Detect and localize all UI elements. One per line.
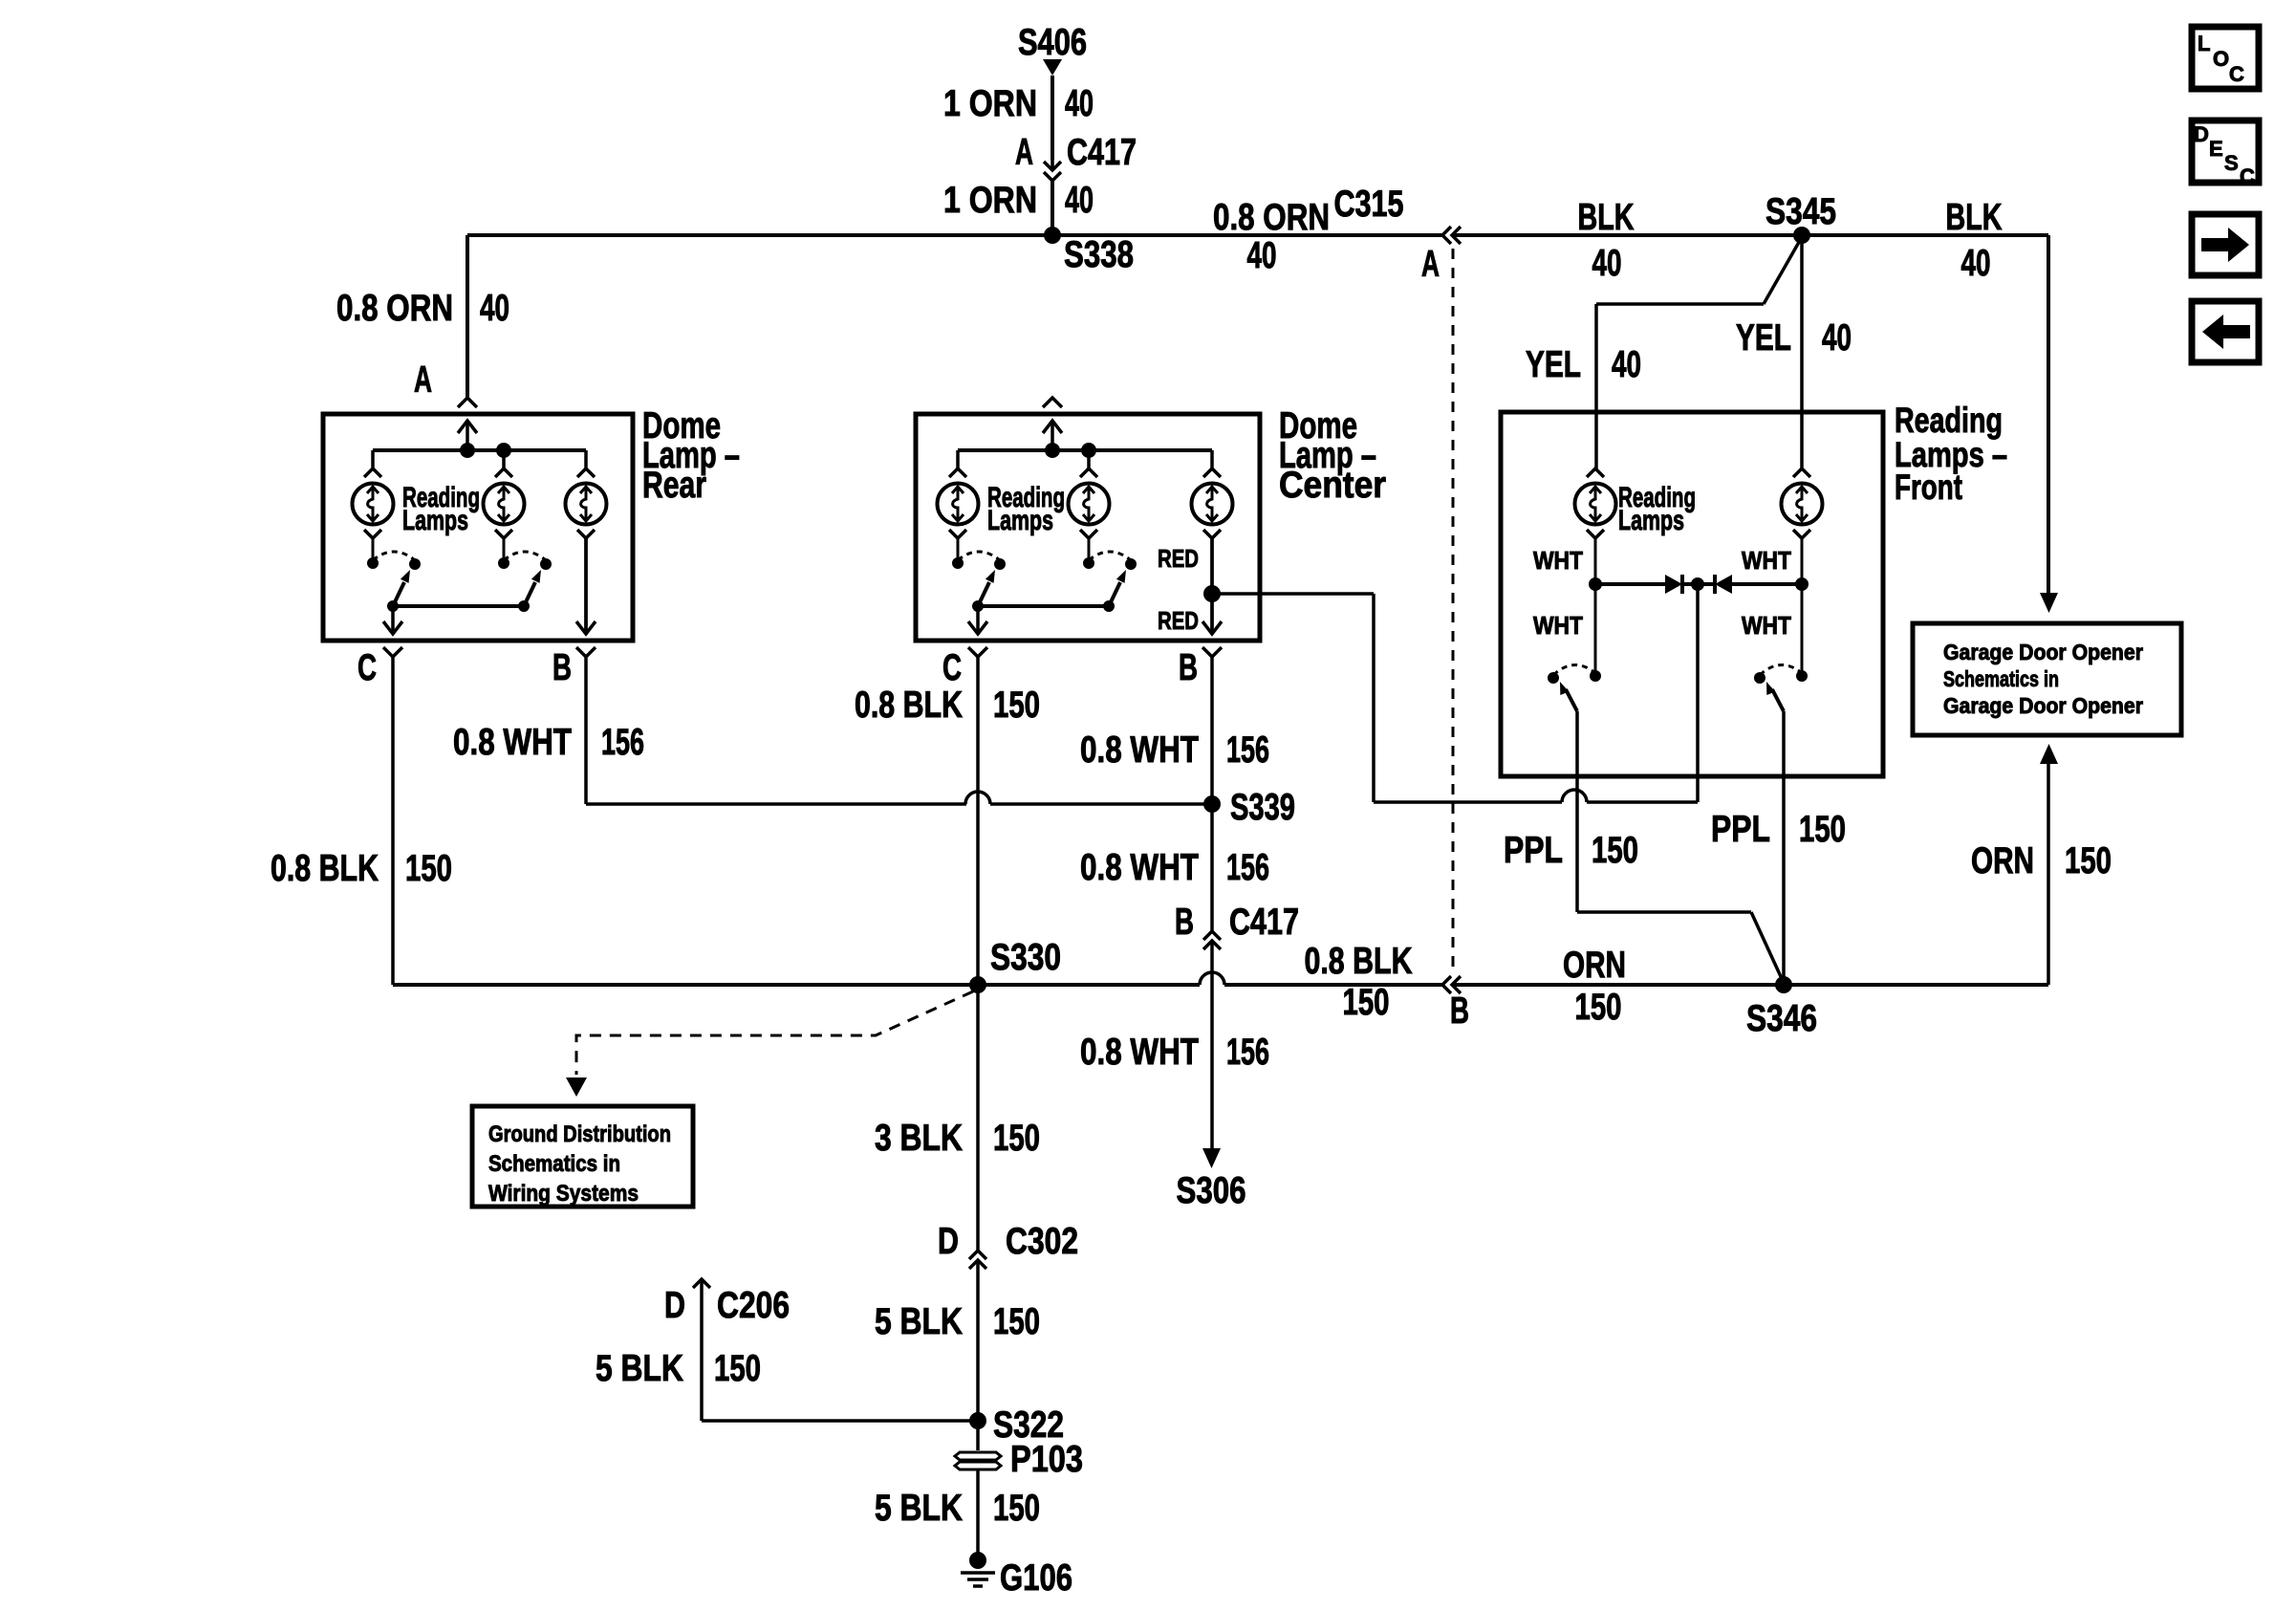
svg-text:150: 150 [1343, 982, 1390, 1023]
svg-text:S330: S330 [990, 937, 1061, 978]
svg-text:A: A [414, 359, 432, 401]
svg-text:BLK: BLK [1946, 197, 2003, 238]
svg-text:E: E [2209, 137, 2223, 161]
svg-text:150: 150 [993, 1301, 1040, 1342]
svg-text:Lamps: Lamps [987, 505, 1053, 536]
svg-text:Garage Door Opener: Garage Door Opener [1943, 693, 2143, 718]
svg-text:3 BLK: 3 BLK [875, 1118, 963, 1159]
svg-text:150: 150 [405, 848, 452, 889]
svg-text:0.8 WHT: 0.8 WHT [453, 722, 572, 763]
svg-text:Lamps: Lamps [402, 505, 468, 536]
svg-text:40: 40 [1065, 180, 1094, 221]
svg-text:0.8 ORN: 0.8 ORN [1213, 197, 1330, 238]
svg-text:A: A [1015, 132, 1033, 173]
svg-text:150: 150 [993, 1488, 1040, 1529]
svg-text:Ground Distribution: Ground Distribution [488, 1121, 671, 1147]
svg-text:C417: C417 [1229, 902, 1299, 943]
svg-text:WHT: WHT [1742, 611, 1791, 640]
svg-text:40: 40 [1822, 317, 1852, 359]
svg-text:150: 150 [1799, 809, 1846, 850]
svg-text:Reading: Reading [1895, 401, 2003, 440]
svg-text:YEL: YEL [1736, 317, 1791, 359]
svg-text:YEL: YEL [1526, 344, 1581, 385]
svg-text:B: B [552, 647, 572, 688]
svg-text:Front: Front [1895, 468, 1962, 507]
svg-text:Schematics in: Schematics in [488, 1151, 620, 1177]
svg-text:S: S [2224, 151, 2239, 175]
svg-text:PPL: PPL [1711, 809, 1770, 850]
svg-text:150: 150 [2065, 840, 2112, 882]
svg-text:S346: S346 [1746, 998, 1817, 1039]
svg-text:Lamps: Lamps [1618, 505, 1684, 536]
svg-text:S345: S345 [1765, 191, 1836, 232]
svg-text:156: 156 [1226, 1032, 1269, 1073]
svg-text:C: C [2240, 164, 2255, 188]
svg-text:Center: Center [1279, 465, 1386, 506]
svg-text:L: L [2198, 32, 2210, 55]
svg-text:1 ORN: 1 ORN [943, 180, 1037, 221]
svg-text:0.8 BLK: 0.8 BLK [271, 848, 379, 889]
svg-text:ORN: ORN [1563, 945, 1626, 986]
svg-text:S306: S306 [1177, 1170, 1246, 1211]
svg-text:WHT: WHT [1533, 546, 1583, 575]
svg-text:C302: C302 [1006, 1221, 1078, 1262]
svg-text:B: B [1175, 902, 1194, 943]
svg-text:0.8 WHT: 0.8 WHT [1080, 1032, 1199, 1073]
svg-text:150: 150 [1592, 830, 1638, 871]
svg-text:Garage Door Opener: Garage Door Opener [1943, 640, 2143, 664]
svg-text:0.8 ORN: 0.8 ORN [336, 288, 453, 329]
svg-text:1 ORN: 1 ORN [943, 83, 1037, 124]
svg-text:S338: S338 [1064, 234, 1134, 275]
svg-text:PPL: PPL [1504, 830, 1563, 871]
svg-text:B: B [1450, 991, 1469, 1032]
svg-text:150: 150 [993, 1118, 1040, 1159]
svg-text:150: 150 [993, 685, 1040, 726]
svg-text:B: B [1179, 647, 1198, 688]
svg-text:P103: P103 [1010, 1439, 1083, 1480]
svg-text:0.8 WHT: 0.8 WHT [1080, 729, 1199, 771]
svg-text:D: D [664, 1285, 685, 1326]
svg-text:RED: RED [1158, 544, 1199, 573]
svg-text:40: 40 [1612, 344, 1641, 385]
svg-text:40: 40 [1961, 243, 1991, 284]
svg-text:D: D [2194, 122, 2209, 146]
svg-text:Wiring Systems: Wiring Systems [488, 1181, 639, 1207]
svg-text:WHT: WHT [1533, 611, 1583, 640]
svg-text:Schematics in: Schematics in [1943, 666, 2059, 691]
svg-text:C: C [942, 647, 962, 688]
svg-text:156: 156 [1226, 729, 1269, 771]
svg-text:40: 40 [480, 288, 509, 329]
svg-text:RED: RED [1158, 606, 1199, 635]
svg-text:WHT: WHT [1742, 546, 1791, 575]
svg-text:C: C [2229, 62, 2244, 86]
svg-text:0.8 BLK: 0.8 BLK [855, 685, 963, 726]
svg-text:ORN: ORN [1971, 840, 2034, 882]
svg-text:C417: C417 [1067, 132, 1137, 173]
svg-text:O: O [2213, 47, 2229, 71]
svg-text:0.8 WHT: 0.8 WHT [1080, 847, 1199, 888]
svg-text:150: 150 [714, 1348, 761, 1389]
svg-text:G106: G106 [1000, 1557, 1072, 1599]
svg-text:Rear: Rear [642, 465, 706, 506]
svg-text:BLK: BLK [1578, 197, 1635, 238]
svg-text:150: 150 [1575, 987, 1622, 1028]
svg-text:S339: S339 [1230, 787, 1295, 828]
svg-text:40: 40 [1592, 243, 1622, 284]
svg-text:0.8 BLK: 0.8 BLK [1305, 941, 1413, 982]
svg-text:5 BLK: 5 BLK [875, 1488, 963, 1529]
svg-text:5 BLK: 5 BLK [875, 1301, 963, 1342]
svg-text:S406: S406 [1018, 22, 1087, 63]
svg-text:156: 156 [1226, 847, 1269, 888]
svg-text:D: D [938, 1221, 959, 1262]
svg-text:40: 40 [1247, 235, 1277, 276]
svg-text:C315: C315 [1334, 184, 1404, 225]
svg-text:C: C [357, 647, 377, 688]
svg-text:156: 156 [601, 722, 644, 763]
svg-text:C206: C206 [717, 1285, 790, 1326]
svg-text:A: A [1421, 244, 1440, 285]
svg-text:5 BLK: 5 BLK [596, 1348, 683, 1389]
svg-text:40: 40 [1065, 83, 1094, 124]
